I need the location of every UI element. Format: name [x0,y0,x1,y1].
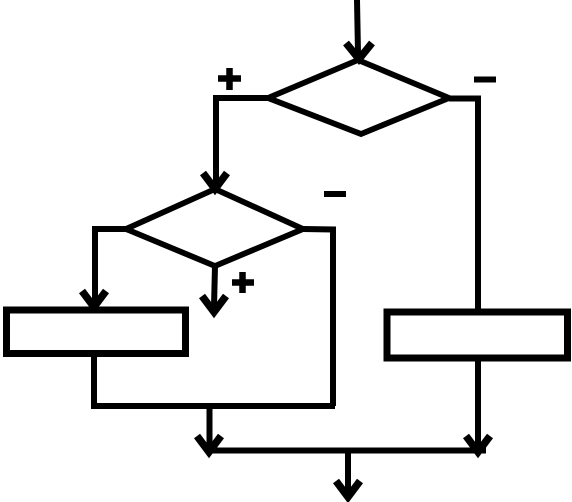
label + (D2 bottom branch) [232,272,254,293]
label - (D1 right branch) [474,77,496,83]
wire merge line 2 (horizontal) [207,448,486,454]
wire merge line 1 (horizontal) [91,403,335,409]
decision D1 (top diamond) [268,60,449,134]
wire D1 right branch vertical through process box P2 onto merge line 2 [449,99,490,453]
wire arrow from merge line 1 down to merge line 2 [197,406,221,452]
wire exit arrow down from merge line 2 [336,451,360,498]
label - (D2 right branch) [324,191,346,197]
wire P1 bottom down to merge line 1 [91,354,97,407]
decision D2 (lower diamond) [126,189,303,266]
wire D2 bottom (+) arrow [202,266,226,312]
wire D1 left branch down to decision D2 [203,98,268,189]
process box P2 (right rectangle) [387,312,568,358]
wire D2 right branch down to merge line 1 [303,229,333,406]
wire entry arrow into decision D1 [346,0,372,59]
wire D2 left branch into process box P1 [82,229,126,307]
label + (D1 left branch) [218,68,241,90]
process box P1 (left rectangle) [7,310,186,354]
